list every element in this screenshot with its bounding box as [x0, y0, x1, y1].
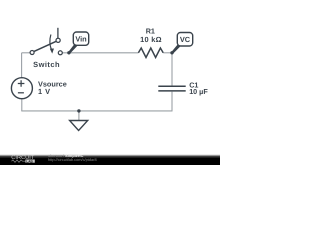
wire bottom rail	[21, 110, 172, 112]
switch upper throw stub	[57, 28, 59, 38]
switch SW1	[30, 28, 62, 55]
svg-text:Vin: Vin	[75, 35, 87, 44]
watermark logo LAB box	[25, 160, 34, 163]
C1 top plate	[158, 85, 185, 87]
Vin flag tail	[68, 44, 77, 53]
watermark logo waveform	[12, 160, 26, 162]
voltage source Vsource	[11, 78, 32, 99]
ground	[70, 109, 88, 130]
wire right vertical upper	[171, 53, 173, 86]
svg-text:Switch: Switch	[33, 60, 60, 69]
ground junction dot	[77, 109, 80, 112]
wire ground stub	[78, 111, 80, 121]
wire Vsource bottom	[21, 99, 23, 111]
resistor R1	[138, 48, 163, 58]
svg-text:10 µF: 10 µF	[189, 87, 208, 96]
node Vin flag	[67, 32, 89, 55]
svg-text:1 V: 1 V	[38, 87, 51, 96]
VC flag box	[177, 33, 192, 47]
VC flag tail	[171, 45, 180, 54]
svg-text:VC: VC	[180, 35, 191, 44]
Vin attachment dot	[67, 51, 70, 54]
switch left terminal circle	[30, 51, 34, 55]
wire top-left horizontal	[22, 52, 31, 54]
wire resistor to junction	[163, 52, 172, 54]
svg-text:http://circuitlab.com/c/ptdar8: http://circuitlab.com/c/ptdar8	[48, 157, 97, 162]
Vsource circle	[11, 78, 32, 99]
node VC flag	[170, 33, 192, 55]
Vsource minus sign	[18, 92, 24, 94]
Vin flag box	[73, 32, 88, 45]
wire switch to resistor	[63, 52, 139, 54]
C1 bottom plate	[158, 90, 185, 92]
Vsource plus sign	[18, 80, 25, 87]
switch right terminal circle	[58, 51, 62, 55]
switch blade	[34, 41, 56, 51]
switch upper throw circle	[56, 38, 60, 42]
svg-text:LAB: LAB	[26, 159, 33, 163]
switch toggle arrowhead	[50, 49, 54, 54]
svg-text:10 kΩ: 10 kΩ	[140, 35, 162, 44]
switch toggle arrow	[50, 35, 52, 50]
capacitor C1	[158, 86, 185, 91]
wire right vertical lower	[171, 92, 173, 111]
VC junction dot	[170, 51, 173, 54]
ground triangle	[70, 121, 88, 131]
wire left vertical	[21, 53, 23, 78]
